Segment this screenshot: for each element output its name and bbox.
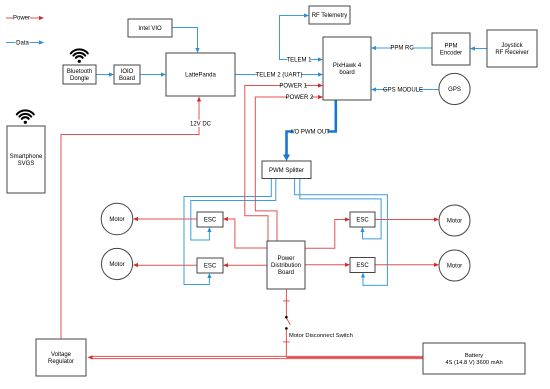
- svg-text:Data: Data: [16, 41, 29, 47]
- svg-text:GPS: GPS: [448, 87, 461, 93]
- svg-text:Smartphone: Smartphone: [10, 154, 43, 160]
- svg-text:Bluetooth: Bluetooth: [67, 69, 92, 75]
- svg-text:Regulator: Regulator: [48, 359, 74, 365]
- svg-text:Encoder: Encoder: [440, 51, 462, 57]
- svg-text:ESC: ESC: [204, 264, 217, 270]
- svg-text:ESC: ESC: [356, 218, 369, 224]
- svg-text:I/O PWM OUT: I/O PWM OUT: [291, 129, 330, 135]
- svg-text:Power: Power: [277, 256, 294, 262]
- svg-text:POWER 1: POWER 1: [279, 84, 307, 90]
- svg-text:12V DC: 12V DC: [190, 121, 212, 127]
- svg-text:PixHawk 4: PixHawk 4: [333, 63, 362, 69]
- svg-text:PPM RC: PPM RC: [390, 46, 414, 52]
- svg-text:board: board: [339, 70, 354, 76]
- svg-text:RF Telemetry: RF Telemetry: [312, 13, 348, 19]
- svg-text:Intel VIO: Intel VIO: [138, 26, 162, 32]
- svg-text:PPM: PPM: [444, 44, 457, 50]
- svg-text:Board: Board: [119, 76, 135, 82]
- svg-text:Motor Disconnect Switch: Motor Disconnect Switch: [289, 333, 353, 339]
- svg-text:PWM Splitter: PWM Splitter: [269, 168, 304, 174]
- svg-text:SVGS: SVGS: [18, 161, 35, 167]
- svg-text:Motor: Motor: [447, 219, 462, 225]
- svg-text:GPS MODULE: GPS MODULE: [383, 88, 423, 94]
- svg-text:Motor: Motor: [109, 217, 124, 223]
- svg-text:Motor: Motor: [447, 264, 462, 270]
- svg-text:IOIO: IOIO: [121, 69, 134, 75]
- svg-text:Distribution: Distribution: [271, 263, 301, 269]
- svg-text:RF Receiver: RF Receiver: [495, 50, 528, 56]
- svg-text:Motor: Motor: [109, 262, 124, 268]
- svg-text:Dongle: Dongle: [70, 76, 90, 82]
- svg-text:LattePanda: LattePanda: [185, 73, 216, 79]
- svg-text:TELEM 2 (UART): TELEM 2 (UART): [256, 73, 303, 79]
- svg-text:Board: Board: [278, 270, 294, 276]
- svg-text:Voltage: Voltage: [51, 352, 72, 358]
- svg-text:Battery: Battery: [465, 353, 483, 359]
- svg-text:ESC: ESC: [356, 263, 369, 269]
- svg-text:ESC: ESC: [204, 218, 217, 224]
- svg-text:POWER 2: POWER 2: [286, 95, 314, 101]
- svg-text:Joystick: Joystick: [501, 43, 523, 49]
- svg-text:Power: Power: [13, 16, 30, 22]
- svg-text:TELEM 1: TELEM 1: [286, 58, 312, 64]
- svg-text:4S (14.8 V) 3600 mAh: 4S (14.8 V) 3600 mAh: [445, 360, 502, 366]
